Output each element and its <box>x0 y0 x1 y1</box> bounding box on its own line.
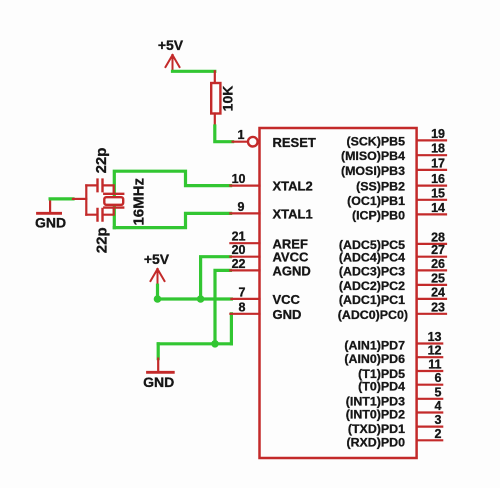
wire +5V to resistor <box>173 70 215 73</box>
resistor R1 10K <box>211 71 235 126</box>
pin 4 stub <box>417 411 443 413</box>
svg-text:12: 12 <box>428 344 442 358</box>
svg-text:(RXD)PD0: (RXD)PD0 <box>346 435 405 449</box>
svg-text:24: 24 <box>431 285 445 299</box>
svg-text:VCC: VCC <box>273 292 301 307</box>
svg-text:22p: 22p <box>93 148 110 174</box>
svg-text:(T0)PD4: (T0)PD4 <box>358 380 405 394</box>
svg-text:+5V: +5V <box>144 251 170 267</box>
pin 27 stub <box>417 256 446 258</box>
pin 1 RESET stub with inversion circle <box>233 128 258 146</box>
svg-text:26: 26 <box>431 257 445 271</box>
svg-text:(INT0)PD2: (INT0)PD2 <box>346 408 405 422</box>
svg-text:(SCK)PB5: (SCK)PB5 <box>346 134 405 148</box>
svg-text:14: 14 <box>431 201 445 215</box>
junction AGND on ground rail <box>211 340 219 348</box>
svg-text:(SS)PB2: (SS)PB2 <box>356 180 405 194</box>
pin 15 stub <box>417 199 446 201</box>
cap bracket vertical <box>85 185 87 214</box>
pin 6 stub <box>417 384 443 386</box>
pin 14 stub <box>417 213 446 215</box>
svg-text:6: 6 <box>435 371 442 385</box>
svg-text:GND: GND <box>35 215 66 231</box>
power +5V (VCC/AVCC) <box>144 251 170 285</box>
svg-text:(ADC1)PC1: (ADC1)PC1 <box>339 293 405 307</box>
svg-text:(TXD)PD1: (TXD)PD1 <box>348 422 405 436</box>
pin 13 stub <box>417 342 443 344</box>
svg-text:XTAL2: XTAL2 <box>273 179 313 194</box>
svg-text:5: 5 <box>435 385 442 399</box>
svg-text:(AIN1)PD7: (AIN1)PD7 <box>344 339 405 353</box>
svg-text:(ICP)PB0: (ICP)PB0 <box>352 208 405 222</box>
svg-text:21: 21 <box>232 230 246 244</box>
svg-text:18: 18 <box>431 142 445 156</box>
pin 3 stub <box>417 426 443 428</box>
pin 8 GND stub <box>230 300 259 314</box>
capacitor C2 22p (bottom) <box>86 209 114 253</box>
svg-text:(MISO)PB4: (MISO)PB4 <box>341 149 405 163</box>
pin 2 stub <box>417 439 443 441</box>
pin 18 stub <box>417 154 446 156</box>
svg-text:7: 7 <box>239 285 246 299</box>
wire AGND pin 22 down to ground rail <box>215 270 230 343</box>
pin 23 stub <box>417 313 446 315</box>
pin 16 stub <box>417 185 446 187</box>
pin 20 AVCC stub <box>230 243 259 257</box>
svg-text:(AIN0)PD6: (AIN0)PD6 <box>344 352 405 366</box>
junction +5V corner <box>154 295 162 303</box>
svg-text:16: 16 <box>431 172 445 186</box>
pin 25 stub <box>417 284 446 286</box>
wire GND pin 8 riser <box>230 314 233 344</box>
svg-text:11: 11 <box>428 358 441 372</box>
wire GND to capacitors <box>50 197 73 200</box>
wire down to GND symbol <box>157 344 160 359</box>
junction AVCC riser on rail <box>197 295 205 303</box>
pin 12 stub <box>417 356 443 358</box>
svg-text:(MOSI)PB3: (MOSI)PB3 <box>341 164 405 178</box>
pin 9 XTAL1 stub <box>230 200 259 214</box>
svg-text:AGND: AGND <box>273 263 311 278</box>
svg-text:22: 22 <box>232 257 246 271</box>
ground GND (crystal) <box>35 199 66 231</box>
svg-text:15: 15 <box>431 186 445 200</box>
svg-text:(ADC0)PC0): (ADC0)PC0) <box>338 308 408 322</box>
svg-text:1: 1 <box>238 128 245 142</box>
svg-text:10K: 10K <box>220 86 236 112</box>
svg-text:(ADC3)PC3: (ADC3)PC3 <box>339 264 405 278</box>
svg-text:2: 2 <box>435 427 442 441</box>
svg-text:13: 13 <box>428 330 442 344</box>
pin 26 stub <box>417 269 446 271</box>
svg-text:GND: GND <box>273 307 302 322</box>
svg-text:(OC1)PB1: (OC1)PB1 <box>347 194 405 208</box>
svg-text:16MHz: 16MHz <box>131 178 148 226</box>
svg-text:(INT1)PD3: (INT1)PD3 <box>346 395 405 409</box>
power +5V (top, reset pull-up) <box>158 37 184 71</box>
pin 7 VCC stub <box>231 285 259 299</box>
wire resistor to RESET pin <box>215 126 233 142</box>
svg-text:23: 23 <box>431 300 445 314</box>
svg-text:3: 3 <box>435 413 442 427</box>
wire ground rail <box>158 342 231 345</box>
svg-text:GND: GND <box>143 374 174 390</box>
svg-text:19: 19 <box>431 127 445 141</box>
red lead GND wire to cap bracket <box>73 198 86 200</box>
right pin stubs group PB <box>417 140 446 440</box>
pin 22 AGND stub <box>230 257 259 271</box>
wire +5V rail to VCC pin 7 <box>158 297 232 300</box>
svg-text:25: 25 <box>431 271 445 285</box>
svg-text:8: 8 <box>239 300 246 314</box>
svg-text:4: 4 <box>435 399 442 413</box>
wire AVCC riser to pin 20 <box>201 257 231 299</box>
pin 17 stub <box>417 169 446 171</box>
wire +5V down to rail <box>156 285 159 299</box>
svg-text:(ADC2)PC2: (ADC2)PC2 <box>339 279 405 293</box>
capacitor C1 22p (top) <box>86 148 114 192</box>
svg-text:9: 9 <box>238 200 245 214</box>
svg-text:20: 20 <box>232 243 246 257</box>
svg-text:17: 17 <box>431 156 445 170</box>
pin 10 XTAL2 stub <box>230 172 259 186</box>
wire XTAL2 net (cap node to pin 10) <box>114 171 230 227</box>
svg-text:10: 10 <box>232 172 246 186</box>
crystal Q1 16MHz <box>104 178 147 226</box>
IC U1 ATmega body <box>260 128 417 458</box>
pin 11 stub <box>417 370 443 372</box>
svg-text:(ADC4)PC4: (ADC4)PC4 <box>339 251 405 265</box>
right pin labels <box>338 134 408 449</box>
svg-text:27: 27 <box>431 243 445 257</box>
ground GND (bottom) <box>143 359 174 390</box>
left pin labels <box>273 135 316 322</box>
svg-text:22p: 22p <box>94 227 111 253</box>
pin 5 stub <box>417 398 443 400</box>
svg-text:XTAL1: XTAL1 <box>273 206 313 221</box>
pin 21 AREF stub <box>230 230 259 244</box>
wire XTAL1 net (cap node to pin 9) <box>114 213 230 227</box>
svg-text:RESET: RESET <box>273 135 316 150</box>
pin 24 stub <box>417 298 446 300</box>
pin 28 stub <box>417 243 446 245</box>
pin 19 stub <box>417 139 446 141</box>
right pin numbers <box>428 127 445 441</box>
svg-text:+5V: +5V <box>158 37 184 53</box>
